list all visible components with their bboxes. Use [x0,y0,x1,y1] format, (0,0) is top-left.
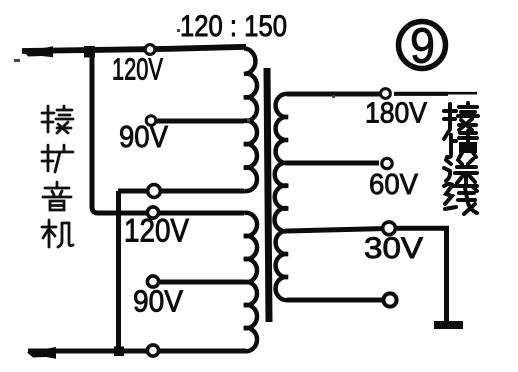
svg-text:180V: 180V [365,98,428,130]
svg-text:60V: 60V [369,169,419,201]
svg-text:120V: 120V [112,52,163,87]
svg-text:90V: 90V [133,284,183,319]
svg-text:90V: 90V [119,119,168,154]
svg-text:120V: 120V [124,213,190,249]
svg-text:120 : 150: 120 : 150 [180,10,287,43]
svg-text:30V: 30V [364,232,423,265]
svg-text:9: 9 [410,20,435,74]
